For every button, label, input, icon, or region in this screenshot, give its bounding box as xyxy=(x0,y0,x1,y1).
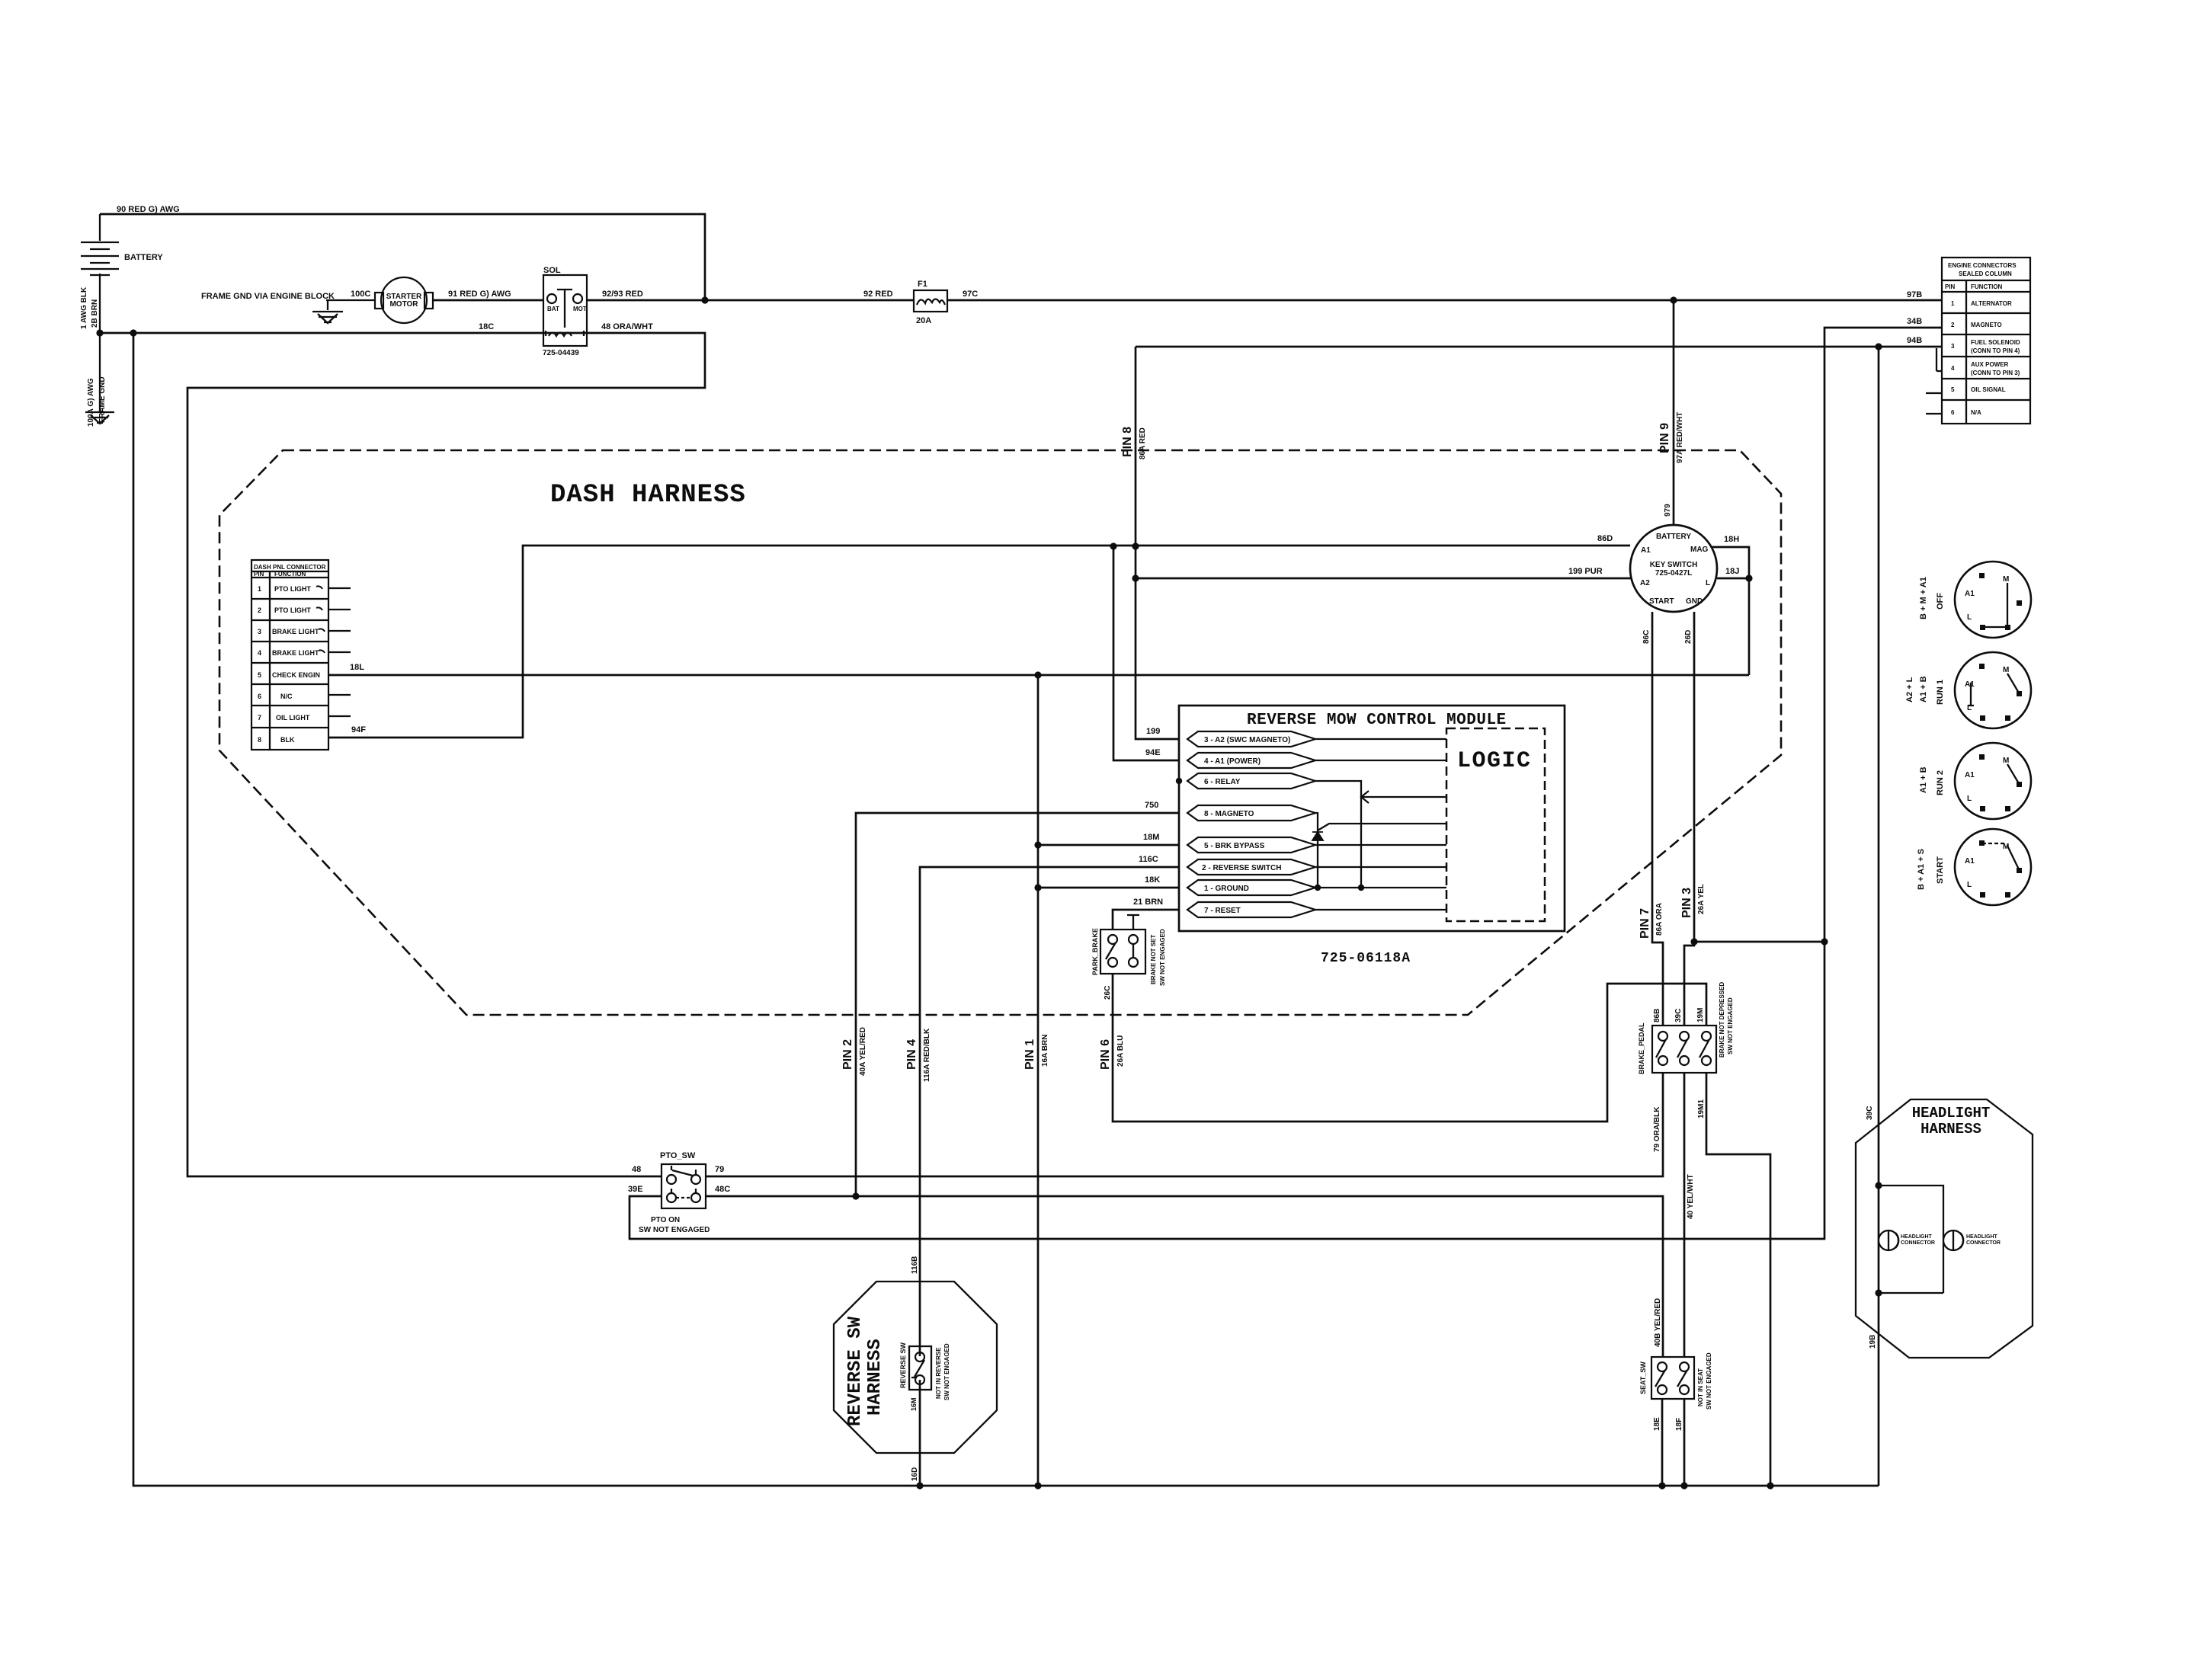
svg-text:MAG: MAG xyxy=(1690,546,1709,554)
wire module row2 to logic xyxy=(1315,760,1446,761)
svg-text:19M: 19M xyxy=(1696,1008,1705,1022)
svg-text:A1 + B: A1 + B xyxy=(1919,766,1928,793)
key switch 725-0267 xyxy=(1630,525,1717,612)
wire 94B engine pin3 headlight feed xyxy=(1136,346,1942,348)
svg-text:OFF: OFF xyxy=(1936,593,1945,610)
svg-text:19B: 19B xyxy=(1869,1335,1877,1349)
svg-text:FRAME GND: FRAME GND xyxy=(98,376,107,423)
svg-text:MAGNETO: MAGNETO xyxy=(1971,322,2002,328)
wire dash pin3 stub xyxy=(328,630,351,632)
svg-text:18H: 18H xyxy=(1724,535,1739,544)
svg-text:100C: 100C xyxy=(351,290,370,299)
wire module row6 to logic xyxy=(1315,866,1446,868)
module pin 5 BRK BYPASS connector xyxy=(1187,837,1315,853)
svg-text:FUNCTION: FUNCTION xyxy=(274,571,306,578)
wire module row1 to logic xyxy=(1315,738,1446,740)
svg-text:HARNESS: HARNESS xyxy=(1921,1121,1981,1138)
wire engine pin6 stub xyxy=(1926,413,1942,414)
wire 18F seat to rail xyxy=(1683,1399,1686,1486)
svg-text:M: M xyxy=(2003,575,2009,584)
wire module relay net xyxy=(1315,781,1446,888)
svg-text:START: START xyxy=(1649,597,1674,606)
wire 94E module A1 power xyxy=(1113,546,1179,760)
junction 26D / kill bus node xyxy=(1690,938,1697,945)
module pin 3 A2 connector xyxy=(1187,731,1315,747)
wire 21 BRN module reset to park brake xyxy=(1113,910,1179,930)
svg-text:HEADLIGHT: HEADLIGHT xyxy=(1966,1234,1998,1240)
wire 26D key GND to brake pedal xyxy=(1684,612,1694,1026)
wire 750 module magneto to PIN 2 xyxy=(856,813,1179,1196)
svg-text:5: 5 xyxy=(258,671,261,679)
svg-text:39C: 39C xyxy=(1866,1106,1874,1120)
svg-text:DASH HARNESS: DASH HARNESS xyxy=(550,481,746,510)
svg-text:26D: 26D xyxy=(1684,630,1693,644)
wire engine block ground stub xyxy=(326,300,376,310)
dash harness octagon xyxy=(219,450,1781,1015)
svg-text:48 ORA/WHT: 48 ORA/WHT xyxy=(601,322,653,331)
junction 18L / PIN 1 tap xyxy=(1034,671,1041,678)
svg-text:A2 + L: A2 + L xyxy=(1905,677,1914,702)
reverse mow control module box xyxy=(1179,706,1565,931)
svg-text:20A: 20A xyxy=(916,316,931,325)
svg-text:PIN 9: PIN 9 xyxy=(1658,423,1671,453)
svg-text:MOTOR: MOTOR xyxy=(389,300,418,309)
svg-text:PIN: PIN xyxy=(1945,283,1956,290)
wire PIN 9 key switch battery feed xyxy=(1673,300,1675,525)
svg-text:26A BLU: 26A BLU xyxy=(1116,1035,1125,1067)
svg-text:199 PUR: 199 PUR xyxy=(1568,567,1603,576)
key position diagram START xyxy=(1917,829,2031,905)
svg-text:L: L xyxy=(1967,881,1972,889)
svg-text:A1: A1 xyxy=(1965,857,1975,866)
svg-text:REVERSE SW: REVERSE SW xyxy=(845,1316,866,1426)
logic block xyxy=(1446,728,1545,921)
module pin 1 GROUND connector xyxy=(1187,880,1315,895)
wire engine pin5 stub xyxy=(1926,392,1942,394)
svg-text:91 RED G) AWG: 91 RED G) AWG xyxy=(448,290,511,299)
fuse F1 20A xyxy=(914,280,947,325)
wire 19M1 brake pedal to rail xyxy=(1706,1073,1770,1486)
svg-text:CHECK ENGIN: CHECK ENGIN xyxy=(272,671,320,679)
svg-text:79 ORA/BLK: 79 ORA/BLK xyxy=(1653,1106,1661,1152)
svg-text:116A RED/BLK: 116A RED/BLK xyxy=(923,1028,931,1082)
junction magneto/ground xyxy=(1315,885,1321,891)
wire module row8 to logic xyxy=(1315,909,1446,910)
svg-text:2: 2 xyxy=(258,606,261,614)
svg-text:26C: 26C xyxy=(1104,986,1112,1000)
svg-text:REVERSE MOW CONTROL MODULE: REVERSE MOW CONTROL MODULE xyxy=(1247,712,1507,729)
svg-text:AUX POWER: AUX POWER xyxy=(1971,361,2009,368)
svg-text:48C: 48C xyxy=(715,1185,730,1194)
svg-text:M: M xyxy=(2003,757,2009,765)
wire 199 PUR to key A2 xyxy=(1136,578,1636,580)
junction solenoid output node xyxy=(701,296,708,303)
svg-text:HEADLIGHT: HEADLIGHT xyxy=(1912,1105,1991,1122)
svg-text:725-0427L: 725-0427L xyxy=(1655,569,1692,578)
svg-text:48: 48 xyxy=(632,1165,641,1174)
svg-text:GND: GND xyxy=(1686,597,1703,606)
svg-text:97A RED/WHT: 97A RED/WHT xyxy=(1676,412,1684,463)
svg-text:RUN 1: RUN 1 xyxy=(1936,680,1945,705)
svg-text:START: START xyxy=(1936,856,1945,884)
wire 94F dash pin8 to key A1 feed xyxy=(328,546,1630,738)
svg-text:5 - BRK BYPASS: 5 - BRK BYPASS xyxy=(1204,842,1265,850)
wire 18E seat to rail xyxy=(1661,1399,1664,1486)
battery B1 xyxy=(81,214,163,333)
svg-text:39E: 39E xyxy=(628,1185,643,1194)
svg-text:L: L xyxy=(1967,613,1972,622)
svg-text:CONNECTOR: CONNECTOR xyxy=(1966,1240,2001,1246)
svg-text:A2: A2 xyxy=(1640,579,1650,587)
svg-text:4 - A1 (POWER): 4 - A1 (POWER) xyxy=(1204,757,1261,766)
svg-text:HEADLIGHT: HEADLIGHT xyxy=(1901,1234,1933,1240)
module pin 7 RESET connector xyxy=(1187,902,1315,917)
svg-text:4: 4 xyxy=(1951,365,1955,372)
svg-text:18L: 18L xyxy=(350,663,364,672)
junction headlight top node xyxy=(1875,1182,1882,1189)
junction rail 16D xyxy=(916,1482,923,1489)
junction 86D / PIN8 tap xyxy=(1132,542,1139,549)
svg-text:HARNESS: HARNESS xyxy=(865,1339,886,1416)
svg-text:L: L xyxy=(1706,579,1710,587)
wire PIN 1 ground drop xyxy=(1037,675,1040,1486)
wire module row7 to logic xyxy=(1315,887,1446,888)
svg-text:OIL LIGHT: OIL LIGHT xyxy=(276,714,310,722)
svg-text:PIN 6: PIN 6 xyxy=(1099,1039,1112,1070)
svg-text:6: 6 xyxy=(1951,409,1955,416)
junction headlight feed tap xyxy=(1875,343,1882,350)
solenoid SOL 725-04439 xyxy=(543,266,587,357)
svg-text:86C: 86C xyxy=(1642,630,1651,644)
key position diagram RUN 2 xyxy=(1919,743,2031,819)
svg-text:18K: 18K xyxy=(1145,875,1160,885)
svg-text:725-06118A: 725-06118A xyxy=(1321,951,1411,966)
reverse switch REVERSE SW xyxy=(899,1342,950,1400)
PTO switch PTO_SW xyxy=(639,1151,710,1234)
svg-text:8 - MAGNETO: 8 - MAGNETO xyxy=(1204,810,1254,818)
svg-text:7: 7 xyxy=(258,714,261,722)
svg-text:DASH PNL CONNECTOR: DASH PNL CONNECTOR xyxy=(254,564,326,571)
junction PIN2 / 48C node xyxy=(852,1192,859,1199)
svg-text:3 - A2 (SWC MAGNETO): 3 - A2 (SWC MAGNETO) xyxy=(1204,736,1290,744)
svg-text:F1: F1 xyxy=(918,280,927,289)
svg-text:PIN 2: PIN 2 xyxy=(841,1039,854,1070)
svg-text:2 - REVERSE SWITCH: 2 - REVERSE SWITCH xyxy=(1202,864,1281,872)
svg-text:92 RED: 92 RED xyxy=(863,290,893,299)
svg-text:A1: A1 xyxy=(1641,546,1651,555)
svg-text:18E: 18E xyxy=(1653,1417,1661,1431)
svg-text:16D: 16D xyxy=(911,1467,919,1481)
module pin 4 A1 connector xyxy=(1187,753,1315,768)
svg-text:PTO_SW: PTO_SW xyxy=(660,1151,696,1160)
svg-text:A1 + B: A1 + B xyxy=(1919,676,1928,702)
svg-text:94F: 94F xyxy=(351,725,366,734)
svg-text:34B: 34B xyxy=(1907,317,1922,326)
svg-text:PTO LIGHT: PTO LIGHT xyxy=(274,606,311,614)
wire 90 RED top battery feed xyxy=(100,214,705,300)
svg-text:PIN 3: PIN 3 xyxy=(1680,888,1693,918)
park brake switch PARK_BRAKE xyxy=(1091,915,1166,986)
wire 34B engine pin2 magneto kill xyxy=(629,328,1942,1239)
wire 48C PTO to seat switch xyxy=(706,1196,1663,1357)
headlight harness octagon xyxy=(1856,1099,2033,1358)
svg-text:PIN 8: PIN 8 xyxy=(1121,427,1134,457)
wire module row5 to logic xyxy=(1315,844,1446,846)
wire left border rail / frame ground bus xyxy=(133,333,1879,1486)
svg-text:FUNCTION: FUNCTION xyxy=(1971,283,2003,290)
svg-text:PTO ON: PTO ON xyxy=(651,1216,680,1224)
svg-text:(CONN TO PIN 4): (CONN TO PIN 4) xyxy=(1971,347,2020,354)
svg-text:750: 750 xyxy=(1145,801,1158,810)
svg-text:NOT IN REVERSE: NOT IN REVERSE xyxy=(935,1347,942,1399)
svg-text:92/93 RED: 92/93 RED xyxy=(602,290,643,299)
svg-text:A1: A1 xyxy=(1965,590,1975,598)
svg-text:16A BRN: 16A BRN xyxy=(1041,1035,1049,1067)
brake pedal switch BRAKE_PEDAL xyxy=(1638,982,1734,1074)
svg-text:6: 6 xyxy=(258,693,261,700)
junction 86D / 94E tap xyxy=(1110,542,1116,549)
svg-text:19M1: 19M1 xyxy=(1697,1099,1706,1118)
ground engine block xyxy=(312,312,343,323)
svg-text:2: 2 xyxy=(1951,322,1955,328)
svg-text:SW NOT ENGAGED: SW NOT ENGAGED xyxy=(1727,997,1734,1054)
svg-text:2B BRN: 2B BRN xyxy=(91,299,99,328)
svg-text:94B: 94B xyxy=(1907,336,1922,345)
junction headlight bottom node xyxy=(1875,1289,1882,1296)
module pin 8 MAGNETO connector xyxy=(1187,805,1315,821)
svg-text:KEY SWITCH: KEY SWITCH xyxy=(1650,561,1698,569)
dash panel connector table xyxy=(251,560,328,750)
motor M1 STARTER MOTOR xyxy=(375,277,433,323)
svg-text:7 - RESET: 7 - RESET xyxy=(1204,907,1241,915)
svg-text:PIN 4: PIN 4 xyxy=(905,1039,918,1070)
wire 18H key MAG xyxy=(1711,547,1749,675)
junction rail 18F xyxy=(1680,1482,1687,1489)
svg-text:86A RED: 86A RED xyxy=(1139,427,1147,459)
svg-text:M: M xyxy=(2003,666,2009,674)
wire dash pin2 stub xyxy=(328,609,351,610)
reverse sw harness octagon xyxy=(834,1282,997,1453)
seat switch SEAT_SW xyxy=(1639,1352,1712,1410)
svg-text:86D: 86D xyxy=(1597,534,1613,543)
svg-text:NOT IN SEAT: NOT IN SEAT xyxy=(1697,1368,1704,1406)
svg-text:18C: 18C xyxy=(479,322,494,331)
svg-text:L: L xyxy=(1967,795,1972,803)
svg-text:ENGINE CONNECTORS: ENGINE CONNECTORS xyxy=(1948,262,2017,269)
svg-text:86A ORA: 86A ORA xyxy=(1655,903,1664,936)
svg-text:PIN 1: PIN 1 xyxy=(1024,1039,1036,1070)
svg-text:199: 199 xyxy=(1146,727,1160,736)
engine connector table xyxy=(1942,258,2030,424)
wire 40 YEL/WHT brake to seat xyxy=(1683,1073,1686,1357)
svg-text:BRAKE LIGHT: BRAKE LIGHT xyxy=(272,649,319,657)
svg-text:SW NOT ENGAGED: SW NOT ENGAGED xyxy=(943,1343,950,1400)
svg-text:BATTERY: BATTERY xyxy=(1656,533,1691,541)
wire module magneto net xyxy=(1315,813,1446,888)
junction battery negative node xyxy=(96,329,103,336)
junction rail 19M1 xyxy=(1767,1482,1773,1489)
wire 39C headlight harness drop xyxy=(1878,347,1880,1486)
svg-text:A1: A1 xyxy=(1965,771,1975,779)
wire 18C battery negative bus to solenoid and loop xyxy=(100,333,705,1176)
key position diagram RUN 1 xyxy=(1905,652,2031,728)
svg-text:SEAT_SW: SEAT_SW xyxy=(1639,1362,1647,1394)
svg-text:5: 5 xyxy=(1951,386,1955,393)
svg-text:PIN: PIN xyxy=(254,571,264,578)
svg-text:BRAKE LIGHT: BRAKE LIGHT xyxy=(272,628,319,635)
svg-text:97C: 97C xyxy=(963,290,978,299)
svg-text:PARK_BRAKE: PARK_BRAKE xyxy=(1091,928,1099,975)
junction 18J node xyxy=(1745,574,1752,581)
ground frame GND symbol xyxy=(85,412,114,424)
wire 18K module ground xyxy=(1038,887,1179,889)
svg-text:PIN 7: PIN 7 xyxy=(1639,908,1651,939)
junction module ground row7 xyxy=(1034,884,1041,891)
svg-text:4: 4 xyxy=(258,649,261,657)
svg-text:18F: 18F xyxy=(1675,1418,1683,1431)
svg-text:A1: A1 xyxy=(1965,680,1975,689)
svg-text:94E: 94E xyxy=(1145,748,1161,757)
junction key switch battery feed node xyxy=(1670,296,1677,303)
svg-text:116B: 116B xyxy=(911,1256,919,1274)
svg-text:BRAKE_PEDAL: BRAKE_PEDAL xyxy=(1638,1022,1645,1074)
svg-text:BAT: BAT xyxy=(547,306,559,312)
diode module magneto clamp xyxy=(1312,832,1323,840)
lamp headlight left xyxy=(1879,1230,1935,1250)
wire dash pin6 stub xyxy=(328,694,351,696)
wire 91 RED starter to solenoid xyxy=(433,299,543,302)
svg-text:40 YEL/WHT: 40 YEL/WHT xyxy=(1687,1174,1695,1219)
svg-text:SW NOT ENGAGED: SW NOT ENGAGED xyxy=(1706,1352,1712,1410)
svg-text:N/A: N/A xyxy=(1971,409,1981,416)
wire 18M module brk bypass xyxy=(1038,844,1179,846)
svg-text:90 RED G) AWG: 90 RED G) AWG xyxy=(117,205,180,214)
wire headlight loop xyxy=(1879,1186,1943,1293)
junction 199 PUR tap xyxy=(1132,574,1139,581)
wire 16D reverse switch to rail xyxy=(919,1380,921,1486)
svg-text:SW NOT ENGAGED: SW NOT ENGAGED xyxy=(1159,929,1166,986)
svg-text:79: 79 xyxy=(715,1165,724,1174)
svg-text:18J: 18J xyxy=(1725,567,1739,576)
wire dash pin1 stub xyxy=(328,587,351,589)
svg-text:86B: 86B xyxy=(1653,1009,1661,1022)
svg-text:3: 3 xyxy=(1951,343,1955,350)
wire 79 PTO to brake pedal xyxy=(706,1073,1663,1176)
svg-text:97B: 97B xyxy=(1907,290,1922,299)
wire 18J key L xyxy=(1717,578,1749,580)
wire dash pin4 stub xyxy=(328,651,351,653)
junction rail 18E xyxy=(1658,1482,1665,1489)
junction module ground row5 xyxy=(1034,841,1041,848)
svg-text:FUEL SOLENOID: FUEL SOLENOID xyxy=(1971,339,2020,346)
module pin 6 RELAY connector xyxy=(1187,773,1315,789)
svg-text:18M: 18M xyxy=(1143,833,1159,842)
svg-text:1 AWG BLK: 1 AWG BLK xyxy=(80,286,88,329)
wire 116C module reverse switch to PIN 4 xyxy=(920,867,1179,1356)
svg-text:1: 1 xyxy=(1951,300,1955,307)
svg-text:CONNECTOR: CONNECTOR xyxy=(1901,1240,1935,1246)
svg-text:979: 979 xyxy=(1664,504,1672,517)
svg-text:(CONN TO PIN 3): (CONN TO PIN 3) xyxy=(1971,370,2020,376)
svg-text:725-04439: 725-04439 xyxy=(543,349,579,357)
wire dash pin7 stub xyxy=(328,715,351,717)
junction rail PIN1 xyxy=(1034,1482,1041,1489)
svg-text:BATTERY: BATTERY xyxy=(124,253,163,262)
svg-text:B + A1 + S: B + A1 + S xyxy=(1917,849,1926,890)
wire 86C key START to brake pedal xyxy=(1652,612,1663,1026)
wire 18L dash pin5 to key switch lights xyxy=(328,674,1749,677)
svg-text:26A YEL: 26A YEL xyxy=(1697,884,1706,914)
junction module relay to case xyxy=(1176,778,1182,784)
svg-text:40B YEL/RED: 40B YEL/RED xyxy=(1654,1298,1662,1347)
svg-text:SW NOT ENGAGED: SW NOT ENGAGED xyxy=(639,1226,710,1234)
svg-text:SOL: SOL xyxy=(543,266,561,275)
wire battery negative to frame ground xyxy=(99,333,101,411)
svg-text:OIL SIGNAL: OIL SIGNAL xyxy=(1971,386,2006,393)
junction relay/ground xyxy=(1358,885,1364,891)
key position diagram OFF xyxy=(1919,562,2031,638)
svg-text:BLK: BLK xyxy=(280,736,295,744)
svg-text:RUN 2: RUN 2 xyxy=(1936,770,1945,795)
wire kill bus link xyxy=(1694,941,1824,943)
svg-text:40A YEL/RED: 40A YEL/RED xyxy=(859,1027,867,1076)
svg-text:39C: 39C xyxy=(1674,1009,1683,1022)
svg-text:LOGIC: LOGIC xyxy=(1457,748,1532,774)
svg-text:1: 1 xyxy=(258,585,261,593)
junction left rail node xyxy=(130,329,136,336)
wire engine pin4 jumper stub xyxy=(1937,348,1942,371)
svg-text:PTO LIGHT: PTO LIGHT xyxy=(274,585,311,593)
wire 26C park brake to PIN 6 xyxy=(1113,974,1706,1122)
svg-text:16M: 16M xyxy=(910,1397,918,1411)
wire PIN 8 fused feed / 199 PUR xyxy=(1136,347,1179,739)
svg-text:SEALED COLUMN: SEALED COLUMN xyxy=(1959,270,2012,277)
junction kill bus node xyxy=(1821,938,1828,945)
module pin 2 REVERSE SWITCH connector xyxy=(1187,859,1315,875)
svg-text:FRAME GND VIA ENGINE BLOCK: FRAME GND VIA ENGINE BLOCK xyxy=(201,292,335,301)
svg-text:3: 3 xyxy=(258,628,261,635)
wire 92/93 RED solenoid output xyxy=(587,299,1942,302)
svg-text:BRAKE NOT DEPRESSED: BRAKE NOT DEPRESSED xyxy=(1719,982,1725,1058)
svg-text:6 - RELAY: 6 - RELAY xyxy=(1204,778,1241,786)
svg-text:ALTERNATOR: ALTERNATOR xyxy=(1971,300,2012,307)
svg-text:BRAKE NOT SET: BRAKE NOT SET xyxy=(1150,935,1157,984)
svg-text:21 BRN: 21 BRN xyxy=(1133,898,1163,907)
svg-text:MOT: MOT xyxy=(573,306,587,312)
svg-text:116C: 116C xyxy=(1139,855,1158,864)
svg-text:1 - GROUND: 1 - GROUND xyxy=(1204,885,1249,893)
lamp headlight right xyxy=(1943,1230,2001,1250)
svg-text:8: 8 xyxy=(258,736,261,744)
svg-text:REVERSE SW: REVERSE SW xyxy=(899,1342,907,1388)
svg-text:B + M + A1: B + M + A1 xyxy=(1919,577,1928,619)
svg-text:N/C: N/C xyxy=(280,693,293,700)
